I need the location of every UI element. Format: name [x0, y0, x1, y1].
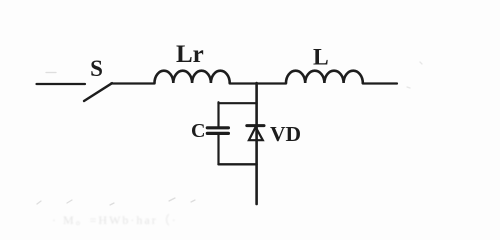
- inductor L: [286, 45, 363, 84]
- wire capacitor branch left lower: [217, 135, 219, 164]
- svg-text:S: S: [90, 56, 103, 81]
- wire node A vertical down: [255, 83, 258, 204]
- diode VD: [247, 122, 301, 146]
- switch S: [84, 56, 112, 101]
- wire switch to Lr: [111, 82, 155, 84]
- wire Lr to node A: [230, 82, 286, 84]
- wire L to right output: [363, 82, 397, 84]
- svg-text:· M。=HWb·har（·: · M。=HWb·har（·: [52, 213, 178, 227]
- inductor Lr: [155, 41, 230, 83]
- svg-text:Lr: Lr: [176, 41, 204, 68]
- capacitor C: [191, 120, 228, 142]
- wire left input lead: [37, 83, 86, 85]
- wire capacitor branch left upper: [217, 102, 219, 126]
- svg-text:VD: VD: [270, 122, 301, 146]
- svg-text:L: L: [313, 45, 329, 71]
- wire capacitor branch bottom: [219, 163, 257, 165]
- wire capacitor branch top: [219, 102, 257, 104]
- svg-text:C: C: [191, 120, 205, 142]
